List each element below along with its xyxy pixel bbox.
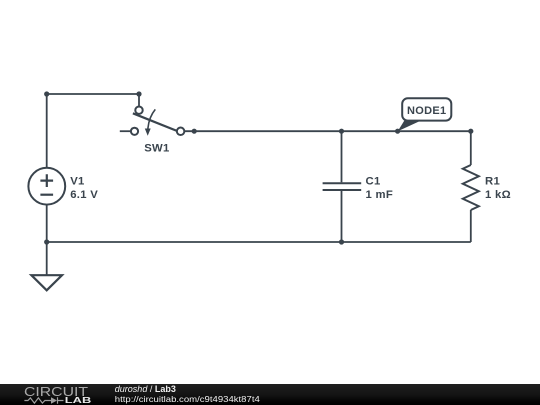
- footer bar: [0, 384, 540, 405]
- CircuitLab logo wordmark: [24, 384, 91, 405]
- node dot resistor top: [468, 129, 473, 134]
- svg-text:SW1: SW1: [144, 142, 169, 154]
- svg-text:duroshd / Lab3: duroshd / Lab3: [115, 384, 176, 394]
- wire bottom horizontal: [47, 241, 471, 243]
- svg-text:LAB: LAB: [65, 395, 92, 405]
- svg-text:http://circuitlab.com/c9t4934k: http://circuitlab.com/c9t4934kt87t4: [115, 394, 260, 404]
- svg-text:R1: R1: [485, 176, 500, 188]
- voltage source V1: [28, 168, 98, 205]
- resistor R1: [463, 165, 511, 210]
- svg-text:1 mF: 1 mF: [366, 189, 394, 201]
- wire capacitor bottom lead: [341, 191, 343, 242]
- wire switch open throw stub: [120, 130, 131, 132]
- wire switch pole stub: [138, 94, 140, 107]
- wire V1 top vertical: [46, 94, 48, 168]
- wire resistor bottom lead: [470, 210, 472, 242]
- svg-text:V1: V1: [70, 176, 84, 188]
- node dot switch output: [192, 129, 197, 134]
- node junction dots: [44, 91, 473, 244]
- wire top horizontal: [47, 93, 139, 95]
- node NODE1 flag: [398, 98, 452, 131]
- wire resistor top lead: [470, 131, 472, 165]
- svg-text:6.1 V: 6.1 V: [70, 189, 98, 201]
- wire V1 bottom vertical: [46, 205, 48, 243]
- wire capacitor top lead: [341, 131, 343, 182]
- capacitor C1: [323, 176, 393, 201]
- wire ground stem: [46, 242, 48, 275]
- node dot top-left: [44, 91, 49, 96]
- svg-text:C1: C1: [366, 176, 381, 188]
- ground: [31, 275, 62, 290]
- switch SW1: [131, 107, 184, 155]
- wire main horizontal node wire: [184, 130, 471, 132]
- node dot capacitor top: [339, 129, 344, 134]
- node dot top switch: [136, 91, 141, 96]
- node dot NODE1: [395, 129, 400, 134]
- node dot capacitor bottom: [339, 239, 344, 244]
- svg-text:1 kΩ: 1 kΩ: [485, 189, 511, 201]
- node dot ground junction: [44, 239, 49, 244]
- svg-text:NODE1: NODE1: [407, 105, 446, 117]
